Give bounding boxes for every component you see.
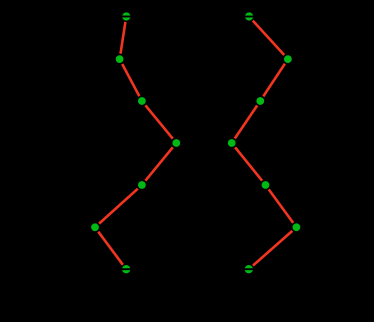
node L6: [91, 223, 99, 231]
wire L5-L6: [99, 189, 138, 224]
wire L3-L4: [145, 105, 172, 138]
wire L6-L7: [98, 232, 123, 265]
node R1 (striped end marker): [245, 12, 254, 20]
node R4: [228, 139, 236, 147]
wire R4-R5: [235, 147, 262, 180]
wire R6-R7: [253, 231, 292, 266]
wire L1-L2: [121, 22, 126, 54]
node L1 (striped end marker): [122, 12, 131, 20]
node R5: [262, 181, 270, 189]
node R7 (striped end marker): [244, 265, 253, 273]
node R2: [284, 55, 292, 63]
wire L4-L5: [145, 147, 172, 180]
node L7 (striped end marker): [122, 265, 131, 273]
wire R3-R4: [235, 106, 257, 139]
node R3: [256, 97, 264, 105]
node L5: [138, 181, 146, 189]
node L2: [116, 55, 124, 63]
wire R5-R6: [269, 189, 294, 223]
node R6: [293, 223, 301, 231]
wire R2-R3: [263, 64, 285, 97]
node L4: [172, 139, 180, 147]
node L3: [138, 97, 146, 105]
wire L2-L3: [122, 64, 139, 96]
wire R1-R2: [253, 21, 284, 55]
